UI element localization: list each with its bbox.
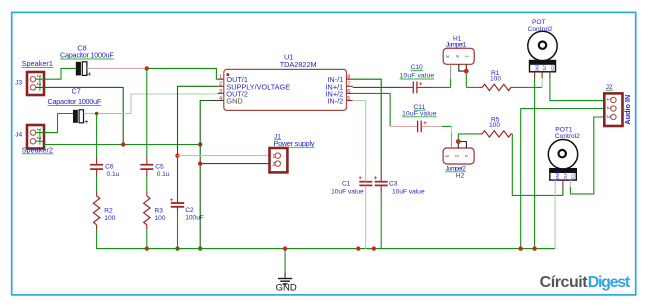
- wire R5 down to POT1 wiper line: [512, 134, 563, 196]
- svg-text:6: 6: [347, 89, 350, 95]
- wire J3 pin1 to C8: [36, 68, 76, 79]
- capacitor C2: [170, 197, 184, 207]
- svg-text:J3: J3: [15, 80, 22, 87]
- svg-text:IN-/2: IN-/2: [327, 97, 343, 106]
- capacitor C6: [90, 165, 103, 169]
- label J2: [606, 84, 614, 91]
- capacitor C5: [140, 165, 153, 169]
- svg-text:100: 100: [104, 215, 115, 222]
- junction node C1/bus: [356, 246, 360, 250]
- svg-text:3: 3: [444, 55, 450, 58]
- IC pin stubs right: [347, 79, 353, 100]
- svg-text:2: 2: [35, 136, 41, 139]
- pin stub C3: [380, 174, 382, 193]
- wire C6 to R2: [96, 176, 98, 192]
- junction node POTgnd/bus: [532, 246, 536, 250]
- svg-text:1: 1: [272, 154, 275, 160]
- svg-text:100uF: 100uF: [185, 214, 204, 221]
- capacitor C8: [76, 62, 92, 79]
- wire pin6 to C11: [353, 93, 390, 126]
- svg-text:Power supply: Power supply: [274, 139, 315, 148]
- svg-text:C1: C1: [342, 181, 351, 188]
- svg-text:3: 3: [605, 115, 611, 118]
- wire J1 pin2 to GND rail: [200, 163, 275, 165]
- H2 right leg: [458, 142, 466, 149]
- H1 middle leg: [459, 64, 467, 71]
- junction node GND/bottombus: [198, 246, 202, 250]
- potentiometer POT1: [548, 140, 577, 188]
- svg-text:1: 1: [605, 98, 611, 101]
- wire C7 net up to IC pin3: [131, 94, 218, 114]
- resistor R5: [479, 131, 512, 137]
- svg-text:2: 2: [454, 55, 460, 58]
- potentiometer POT: [528, 31, 557, 78]
- svg-text:+: +: [87, 72, 91, 79]
- wire supply rail from IC pin2: [178, 86, 218, 197]
- junction node R3/bus: [145, 246, 149, 250]
- wire R1 to POT wiper: [514, 86, 542, 88]
- svg-text:C3: C3: [389, 181, 398, 188]
- svg-text:C5: C5: [155, 163, 164, 170]
- svg-text:1: 1: [35, 74, 41, 77]
- svg-text:Capacitor 1000uF: Capacitor 1000uF: [60, 51, 114, 60]
- pin stub R2 top: [96, 192, 98, 197]
- junction node GND/J1pin2: [198, 161, 202, 165]
- svg-text:J4: J4: [15, 132, 22, 139]
- wire C5 to R3: [146, 176, 148, 192]
- wire POT left pin (GND) to bus: [534, 78, 536, 248]
- wire C8 to OUT/1 (pink part): [87, 67, 147, 69]
- wire J4 pin2 horizontal: [44, 144, 200, 146]
- pin stub R2 bottom: [96, 225, 98, 230]
- svg-text:OUT: OUT: [542, 63, 547, 72]
- wire C1 to bus: [365, 193, 367, 248]
- IC U1 TDA2822M: [224, 69, 347, 110]
- H1 left leg: [450, 64, 452, 87]
- svg-text:POT: POT: [532, 19, 546, 26]
- svg-text:2: 2: [219, 82, 222, 88]
- IC pin stubs left: [212, 79, 224, 100]
- wire J1 pin1 to supply rail: [178, 155, 276, 157]
- wire GND net from IC pin4: [200, 101, 212, 249]
- wire C6 column: [96, 114, 98, 158]
- wire POT1 left pin to bus end: [554, 187, 556, 249]
- svg-text:4: 4: [219, 96, 222, 102]
- pin stub R3 bottom: [146, 225, 148, 230]
- wire J2 pin2 to ground: [521, 109, 611, 249]
- svg-text:GND: GND: [535, 63, 540, 73]
- junction node H2: [456, 139, 461, 144]
- svg-text:+: +: [84, 119, 88, 126]
- wire POT1 wiper down: [562, 187, 564, 195]
- junction node C8/OUT1: [145, 66, 149, 70]
- svg-text:1: 1: [219, 75, 222, 81]
- pin stub C6 top: [96, 157, 98, 164]
- svg-text:3: 3: [219, 89, 222, 95]
- svg-text:1: 1: [35, 128, 41, 131]
- wire H1 to R1: [466, 86, 479, 88]
- wire C5 column top: [146, 68, 148, 157]
- H1 right leg: [465, 64, 467, 87]
- resistor R2: [93, 196, 99, 225]
- label Capacitor 1000uF (C8): [60, 51, 114, 60]
- connector J3: [27, 72, 44, 95]
- svg-text:10uF value: 10uF value: [400, 73, 435, 80]
- label Power supply: [274, 139, 315, 148]
- pin stub C5 bottom: [146, 169, 148, 176]
- wire pin7 to C10: [353, 86, 401, 88]
- svg-text:0.1u: 0.1u: [107, 171, 120, 178]
- svg-text:C6: C6: [105, 163, 114, 170]
- ground symbol: [276, 272, 297, 293]
- svg-text:+: +: [419, 81, 423, 88]
- wire H2 to R5: [458, 134, 479, 142]
- wire R2 to ground bus: [97, 230, 147, 249]
- svg-text:VCC: VCC: [550, 63, 555, 72]
- wire POT right pin to J2 pin1: [550, 78, 611, 100]
- wire J4 pin1 to C7: [36, 114, 73, 133]
- junction node C3/bus: [372, 246, 376, 250]
- svg-text:H2: H2: [456, 173, 465, 180]
- wire C2 to ground bus: [177, 213, 179, 249]
- label C10: [411, 64, 423, 71]
- svg-text:3: 3: [444, 155, 450, 158]
- svg-text:10uF value: 10uF value: [402, 110, 437, 117]
- wire POT1 right pin to J2 pin3: [570, 117, 610, 194]
- capacitor C1: [358, 175, 372, 185]
- svg-text:Capacitor 1000uF: Capacitor 1000uF: [48, 97, 102, 106]
- junction node supply/J1: [175, 153, 179, 157]
- junction node gnd tap: [283, 246, 287, 250]
- svg-text:VCC: VCC: [571, 172, 576, 181]
- svg-text:Círcuit: Círcuit: [540, 274, 589, 291]
- wire pin8 to C3 column: [353, 79, 382, 174]
- pin stub C2 bottom: [177, 207, 179, 213]
- svg-text:1: 1: [464, 55, 470, 58]
- svg-text:Digest: Digest: [588, 274, 631, 291]
- junction node C2/bus: [175, 246, 179, 250]
- svg-text:7: 7: [347, 82, 350, 88]
- svg-text:TDA2822M: TDA2822M: [280, 60, 317, 69]
- wire C11 to H2 left leg: [442, 125, 452, 127]
- junction node H1: [464, 69, 469, 74]
- label Capacitor 1000uF (C7): [48, 97, 102, 106]
- label C11: [414, 104, 427, 111]
- svg-text:GND: GND: [226, 97, 242, 106]
- pin stub C6 bottom: [96, 169, 98, 176]
- svg-text:5: 5: [347, 96, 350, 102]
- svg-text:100: 100: [155, 215, 166, 222]
- H2 left leg: [451, 126, 453, 148]
- H2 middle leg: [457, 142, 459, 149]
- svg-text:8: 8: [347, 75, 350, 81]
- wire speaker return bus y145: [36, 140, 44, 142]
- junction node C6 tap: [95, 112, 99, 116]
- junction node J2gnd/bus: [519, 246, 523, 250]
- label Speaker2: [22, 145, 54, 154]
- capacitor C7: [73, 110, 88, 126]
- label Speaker1: [22, 59, 54, 68]
- svg-text:OUT: OUT: [563, 171, 568, 180]
- connector J2: [604, 93, 622, 126]
- svg-text:GND: GND: [555, 171, 560, 181]
- resistor R3: [144, 196, 150, 225]
- svg-text:2: 2: [272, 162, 275, 168]
- svg-text:100: 100: [490, 75, 501, 82]
- label 10uF value (C11): [402, 110, 437, 117]
- svg-text:+: +: [423, 120, 427, 127]
- resistor R1: [479, 84, 514, 90]
- svg-text:Speaker2: Speaker2: [22, 145, 53, 154]
- wire pin5 to C1 column: [353, 101, 366, 174]
- svg-text:10uF value: 10uF value: [392, 188, 425, 195]
- pin stub R3 top: [146, 192, 148, 197]
- capacitor C11: [390, 120, 442, 132]
- wire J3 pin2 to speaker-return bus: [36, 87, 124, 144]
- connector J4: [27, 125, 44, 149]
- svg-text:1: 1: [463, 155, 469, 158]
- capacitor C10: [401, 81, 432, 93]
- wire C10 to H1 left leg: [432, 86, 451, 88]
- junction node GND/bus: [198, 142, 202, 146]
- pin stub C5 top: [146, 157, 148, 164]
- svg-text:GND: GND: [276, 282, 297, 293]
- label J1: [274, 133, 282, 140]
- wire C7 to OUT/2 (pink): [84, 113, 132, 115]
- connector J1: [270, 148, 288, 172]
- svg-text:0.1u: 0.1u: [157, 171, 170, 178]
- svg-text:100: 100: [489, 122, 500, 129]
- ground bus bottom: [147, 248, 555, 250]
- label 10uF value (C10): [400, 73, 435, 80]
- svg-text:Speaker1: Speaker1: [22, 59, 53, 68]
- jumper H1: [443, 48, 474, 64]
- svg-text:Audio IN: Audio IN: [623, 95, 632, 125]
- wire C3 to bus: [380, 193, 382, 248]
- svg-text:10uF value: 10uF value: [331, 188, 364, 195]
- wire POT wiper down to R1 line: [541, 78, 543, 87]
- logo CircuitDigest: [540, 274, 631, 291]
- capacitor C3: [374, 175, 388, 185]
- svg-text:Control2: Control2: [555, 133, 580, 140]
- junction node J3pin2/bus: [121, 142, 125, 146]
- label Jumper1: [446, 42, 467, 49]
- svg-text:2: 2: [454, 155, 460, 158]
- svg-text:C2: C2: [185, 207, 194, 214]
- pin stub C1: [365, 174, 367, 194]
- svg-text:R2: R2: [104, 208, 113, 215]
- ground tap wire: [284, 249, 286, 273]
- svg-text:2: 2: [605, 106, 611, 109]
- jumper H2: [443, 148, 474, 164]
- label H2 below box: [445, 165, 466, 172]
- svg-text:2: 2: [35, 83, 41, 86]
- wire R3 to ground bus: [146, 230, 148, 249]
- svg-text:Jumper2: Jumper2: [445, 165, 466, 172]
- pin stub C2 top: [177, 197, 179, 203]
- svg-text:R3: R3: [155, 208, 164, 215]
- wire C8 net to IC pin1: [147, 68, 218, 79]
